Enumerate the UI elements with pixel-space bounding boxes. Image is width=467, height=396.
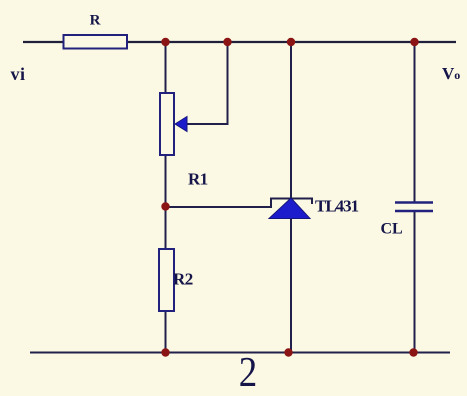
svg-text:TL431: TL431 [315, 197, 359, 216]
resistor R [64, 35, 128, 49]
wire CL to bottom rail [414, 212, 416, 353]
op-amp U1 TL431 shunt regulator triangle [269, 198, 310, 219]
node junction dot top rail at CL branch [410, 38, 418, 46]
wire reference node to TL431 ref pin [166, 199, 313, 208]
node junction dot top rail at TL431 branch [287, 38, 295, 46]
resistor R2 [159, 249, 174, 311]
wire left branch through R1 pot and R2 [165, 42, 167, 353]
node junction dot bottom rail at TL431 [284, 348, 292, 356]
wire bottom rail (net 2) [30, 352, 450, 354]
node junction dot top rail at pot branch [161, 38, 169, 46]
svg-text:R2: R2 [173, 270, 193, 289]
svg-text:2: 2 [239, 349, 257, 396]
svg-text:vi: vi [11, 64, 26, 84]
wire TL431 anode to bottom rail [290, 218, 292, 353]
svg-text:CL: CL [381, 221, 403, 238]
capacitor CL bottom plate [395, 210, 433, 213]
wire output branch to CL [414, 42, 416, 202]
svg-text:R1: R1 [188, 170, 208, 189]
node junction dot bottom rail at R2 [161, 348, 169, 356]
capacitor CL top plate [395, 201, 433, 204]
potentiometer R1 wiper arrow [175, 117, 187, 132]
node junction dot reference node R1 R2 [161, 202, 169, 210]
wire wiper to top rail [186, 42, 228, 124]
node junction dot top rail at wiper branch [223, 38, 231, 46]
wire TL431 cathode branch [290, 42, 292, 199]
wire top rail vi to Vo [23, 41, 456, 43]
svg-text:R: R [90, 13, 101, 29]
node junction dot bottom rail at CL [409, 348, 417, 356]
potentiometer R1 body [160, 93, 174, 155]
